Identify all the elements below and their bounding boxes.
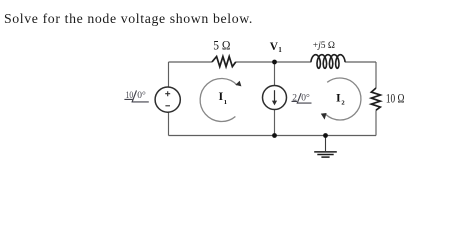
svg-text:10 Ω: 10 Ω (386, 91, 405, 106)
ground symbol line 1 (314, 151, 337, 153)
ground symbol line 3 (321, 156, 329, 158)
svg-text:Solve for the node voltage sho: Solve for the node voltage shown below. (4, 11, 253, 26)
ground symbol line 2 (317, 154, 333, 156)
svg-text:I: I (219, 89, 224, 103)
ground node dot (323, 133, 328, 138)
label 10/0 source value (126, 90, 146, 101)
node V1 dot (272, 60, 277, 65)
voltage source plus sign (165, 91, 170, 96)
mesh current I2 arc (326, 78, 361, 120)
svg-text:0°: 0° (137, 90, 146, 101)
node dot current source bottom (272, 133, 277, 138)
svg-text:+j5 Ω: +j5 Ω (313, 40, 335, 51)
wire left (168, 62, 170, 136)
wire right (375, 62, 377, 136)
svg-text:2: 2 (341, 100, 345, 107)
current source arrow (274, 90, 276, 102)
wire top (169, 61, 377, 63)
I2 arrowhead (321, 113, 327, 120)
svg-text:5 Ω: 5 Ω (213, 38, 230, 53)
wire ground stem (325, 136, 327, 152)
I1 arrowhead (235, 81, 241, 87)
wire bottom (169, 135, 377, 137)
current source circle (263, 86, 287, 110)
inductor coil (311, 55, 345, 69)
voltage source minus sign (165, 105, 170, 107)
resistor 5 ohm zigzag (212, 57, 236, 67)
resistor 10 ohm vertical zigzag (371, 88, 380, 110)
svg-text:I: I (336, 90, 341, 104)
mesh current I1 arc (200, 79, 237, 122)
svg-text:V: V (270, 41, 279, 53)
svg-text:0°: 0° (301, 92, 310, 103)
svg-text:1: 1 (278, 47, 282, 54)
voltage source V circle (155, 87, 180, 112)
svg-text:1: 1 (224, 99, 227, 106)
label 2/0 source value (292, 92, 310, 103)
wire current-source branch (274, 62, 276, 136)
